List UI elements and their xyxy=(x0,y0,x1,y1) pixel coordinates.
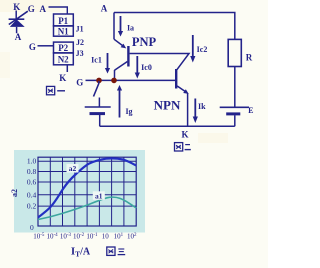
layer N1 xyxy=(54,26,74,37)
graph panel xyxy=(14,150,145,233)
transistor V1 PNP base bar xyxy=(127,46,129,67)
x axis tick labels xyxy=(33,233,137,241)
svg-text:Ic2: Ic2 xyxy=(197,45,208,54)
label NPN xyxy=(154,97,181,112)
SCR gate lead xyxy=(9,11,28,24)
curve label a2 xyxy=(67,164,79,173)
switch S xyxy=(94,81,100,107)
svg-text:0.4: 0.4 xyxy=(27,190,37,199)
current arrow Ic1 xyxy=(91,53,110,74)
svg-text:Ia: Ia xyxy=(127,24,134,33)
wire R to battery E xyxy=(234,67,236,108)
svg-text:A: A xyxy=(40,4,47,14)
svg-text:0.6: 0.6 xyxy=(27,178,37,187)
wire gate rail xyxy=(86,79,176,81)
layer P1 xyxy=(54,14,74,26)
wire A to block top xyxy=(49,7,68,14)
svg-text:NPN: NPN xyxy=(154,97,181,112)
svg-text:G: G xyxy=(29,42,36,52)
layer P2 xyxy=(54,42,74,53)
svg-text:Ic0: Ic0 xyxy=(141,63,152,72)
current arrow Ia xyxy=(118,16,134,37)
svg-text:K: K xyxy=(13,2,20,12)
svg-text:J3: J3 xyxy=(76,49,84,58)
svg-text:Ic1: Ic1 xyxy=(91,56,102,65)
svg-text:a2: a2 xyxy=(10,189,19,197)
caption 图三 xyxy=(107,247,125,255)
wire NPN emitter xyxy=(177,86,189,126)
transistor V2 NPN base bar xyxy=(175,69,177,89)
wire top rail xyxy=(114,13,235,40)
svg-text:0.8: 0.8 xyxy=(27,167,37,176)
curve a1 xyxy=(38,197,136,219)
svg-text:a1: a1 xyxy=(95,191,103,200)
battery E xyxy=(220,106,254,126)
svg-text:PNP: PNP xyxy=(132,35,157,49)
svg-text:1.0: 1.0 xyxy=(27,157,37,166)
svg-text:a2: a2 xyxy=(69,164,77,173)
svg-text:A: A xyxy=(101,4,108,14)
svg-text:0.2: 0.2 xyxy=(27,202,37,211)
svg-text:A: A xyxy=(15,32,22,42)
y axis title a2 xyxy=(10,189,19,197)
layer N2 xyxy=(54,53,74,65)
wire PNP base to NPN collector xyxy=(130,54,189,70)
junction dot 1 xyxy=(96,78,102,84)
caption 图二 xyxy=(175,143,191,151)
svg-text:K: K xyxy=(181,129,188,139)
current arrow Ic0 xyxy=(135,56,152,79)
svg-text:0: 0 xyxy=(30,223,34,232)
node G (fig2 gate label) xyxy=(76,77,83,87)
svg-text:G: G xyxy=(76,77,83,87)
curve a2 xyxy=(38,158,136,217)
node A (anode of fig2) xyxy=(101,4,108,14)
svg-text:10: 10 xyxy=(102,233,110,241)
node K (fig2 cathode label) xyxy=(181,129,188,139)
thyristor SCR symbol xyxy=(9,11,25,34)
junction label J1 xyxy=(76,25,84,34)
current arrow Ic2 xyxy=(190,35,207,63)
svg-text:R: R xyxy=(246,53,253,63)
graph grid xyxy=(38,157,136,226)
svg-text:E: E xyxy=(248,106,253,115)
svg-text:J2: J2 xyxy=(76,38,84,47)
svg-text:Ik: Ik xyxy=(198,102,206,111)
gate wire to P2 xyxy=(38,45,54,47)
svg-text:N1: N1 xyxy=(58,27,69,37)
junction dot 2 xyxy=(111,78,117,84)
current arrow Ik xyxy=(193,99,206,124)
junction label J3 xyxy=(76,49,84,58)
x axis title IT/A xyxy=(71,246,91,259)
battery gate supply xyxy=(85,107,111,126)
resistor R xyxy=(228,39,253,66)
svg-text:N2: N2 xyxy=(58,55,69,65)
wire PNP emitter lead xyxy=(114,13,126,49)
curve label a1 xyxy=(93,191,105,200)
y axis tick labels xyxy=(27,157,37,232)
node K (SCR cathode label) xyxy=(13,2,20,12)
cathode wire from N2 xyxy=(66,65,68,72)
label PNP xyxy=(132,35,157,49)
node G (SCR gate label) xyxy=(28,4,35,14)
svg-text:IT/A: IT/A xyxy=(71,246,91,259)
node A (PNPN block anode label) xyxy=(40,4,47,14)
node G (block gate label) xyxy=(29,42,36,52)
svg-text:J1: J1 xyxy=(76,25,84,34)
svg-text:Ig: Ig xyxy=(125,107,132,116)
svg-text:P2: P2 xyxy=(58,43,68,53)
svg-text:P1: P1 xyxy=(58,16,68,26)
svg-text:K: K xyxy=(59,73,66,83)
caption 图一 xyxy=(47,86,66,94)
current arrow Ig xyxy=(117,85,133,118)
svg-text:G: G xyxy=(28,4,35,14)
junction label J2 xyxy=(76,38,84,47)
node A (SCR anode label) xyxy=(15,32,22,42)
wire bottom rail xyxy=(100,125,235,127)
wire PNP collector xyxy=(115,62,128,81)
node K (block cathode label) xyxy=(59,73,66,83)
